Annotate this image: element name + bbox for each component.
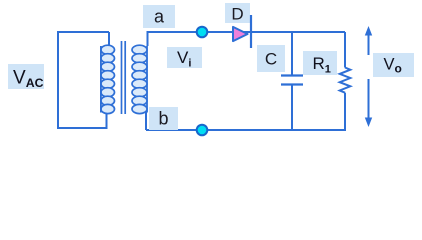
wire: secondary coil top lead bbox=[148, 32, 346, 46]
output arrow up bbox=[368, 33, 370, 55]
wire: primary coil bottom lead bbox=[106, 111, 108, 128]
label Vac bbox=[8, 64, 44, 89]
label Vi bbox=[167, 47, 202, 68]
wire: capacitor branch bottom bbox=[291, 85, 293, 131]
wire: secondary coil bottom lead bbox=[145, 111, 147, 130]
label R1 bbox=[303, 51, 337, 75]
wire: primary left vertical bbox=[57, 31, 59, 129]
label box C bbox=[257, 45, 285, 72]
resistor R1 zigzag bbox=[340, 68, 351, 93]
wire: primary coil top lead bbox=[108, 32, 110, 47]
svg-text:C: C bbox=[265, 50, 277, 69]
wire: resistor branch top bbox=[344, 32, 346, 68]
svg-text:b: b bbox=[158, 109, 168, 129]
output arrow down bbox=[368, 79, 370, 119]
transformer T1 primary winding bbox=[101, 45, 115, 113]
label box a bbox=[143, 5, 175, 28]
capacitor C top plate bbox=[281, 74, 303, 76]
diode D bbox=[233, 27, 248, 41]
transformer T1 primary winding straight side bbox=[100, 46, 102, 113]
wire: capacitor branch top bbox=[291, 32, 293, 75]
svg-text:a: a bbox=[154, 7, 165, 27]
transformer T1 core bbox=[121, 41, 123, 114]
transformer T1 secondary winding straight side bbox=[146, 46, 148, 113]
label box D bbox=[225, 3, 250, 23]
label Vo bbox=[373, 53, 414, 77]
label box b bbox=[149, 107, 178, 130]
capacitor C bottom plate bbox=[281, 83, 303, 85]
wire: primary bottom horizontal bbox=[57, 127, 108, 129]
wire: bottom rail bbox=[146, 129, 345, 131]
transformer T1 secondary winding bbox=[132, 45, 147, 113]
svg-text:D: D bbox=[231, 5, 243, 24]
diode D cathode bar bbox=[250, 15, 252, 48]
wire: resistor branch bottom bbox=[344, 93, 346, 131]
node b bbox=[197, 125, 208, 136]
wire: primary top horizontal bbox=[58, 31, 109, 33]
node a bbox=[197, 27, 208, 38]
